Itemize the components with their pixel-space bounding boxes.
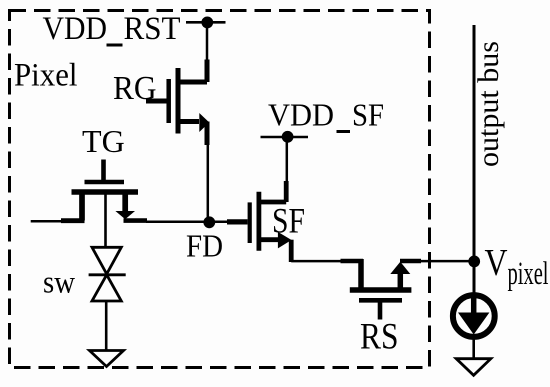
ground left (90, 351, 124, 367)
pixel boundary dashed box (10, 11, 430, 368)
transistor RS (341, 259, 422, 320)
svg-text:RS: RS (360, 317, 399, 358)
output bus line (473, 25, 476, 296)
svg-text:VDD: VDD (43, 11, 108, 47)
transistor RG (146, 60, 209, 146)
wire RS to output bus (420, 260, 474, 263)
diode pair SW (89, 247, 126, 301)
svg-text:TG: TG (82, 123, 125, 159)
svg-text:V: V (485, 242, 508, 284)
wire FD to SF gate (227, 219, 248, 224)
VDD_SF rail (261, 136, 309, 139)
wire RG source to FD (207, 143, 210, 222)
wire SF source to RS (291, 260, 342, 263)
svg-text:FD: FD (186, 228, 223, 264)
svg-text:SF: SF (352, 96, 384, 132)
wire Vpixel to current source (473, 260, 476, 296)
svg-text:Pixel: Pixel (14, 58, 78, 94)
node VDD_SF dot (282, 131, 294, 143)
svg-text:SF: SF (272, 200, 305, 240)
transistor TG (72, 160, 148, 221)
svg-text:sw: sw (43, 264, 75, 300)
wire TG center to SW (104, 194, 107, 247)
node Vpixel dot (468, 256, 480, 268)
wire TG left stub (61, 218, 85, 223)
wire current source to ground (472, 340, 475, 360)
wire SW to ground (105, 301, 108, 351)
svg-text:RG: RG (113, 70, 157, 107)
svg-text:output bus: output bus (472, 41, 505, 167)
ground right (456, 359, 491, 376)
wire TG to FD (146, 221, 228, 224)
wire TG left lead (31, 220, 63, 223)
wire VDD_SF to SF drain (286, 137, 289, 183)
transistor SF (250, 181, 292, 262)
svg-text:RST: RST (124, 11, 181, 47)
svg-text:pixel: pixel (508, 256, 549, 292)
VDD_RST rail (186, 21, 226, 24)
node FD dot (203, 216, 215, 228)
svg-text:VDD: VDD (268, 96, 334, 132)
current source I_bias (453, 295, 495, 337)
node VDD_RST dot (201, 17, 213, 29)
wire VDD_RST to RG drain (206, 22, 209, 62)
